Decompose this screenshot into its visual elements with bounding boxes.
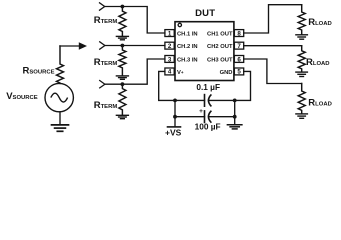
svg-text:7: 7 — [237, 43, 241, 50]
svg-text:4: 4 — [168, 69, 172, 76]
svg-text:1: 1 — [168, 30, 172, 37]
svg-text:5: 5 — [237, 69, 241, 76]
svg-text:100 µF: 100 µF — [195, 122, 221, 132]
svg-text:CH2 OUT: CH2 OUT — [207, 44, 233, 50]
svg-text:0.1 µF: 0.1 µF — [196, 82, 220, 92]
svg-text:+: + — [199, 108, 203, 115]
svg-text:8: 8 — [237, 30, 241, 37]
svg-text:2: 2 — [168, 43, 172, 50]
svg-text:CH1 OUT: CH1 OUT — [207, 31, 233, 37]
svg-text:DUT: DUT — [195, 8, 215, 19]
svg-text:6: 6 — [237, 56, 241, 63]
svg-text:CH.3 IN: CH.3 IN — [177, 57, 198, 63]
svg-text:+VS: +VS — [165, 128, 182, 138]
svg-text:CH.2 IN: CH.2 IN — [177, 44, 198, 50]
svg-text:CH3 OUT: CH3 OUT — [207, 57, 233, 63]
svg-text:GND: GND — [220, 70, 233, 76]
svg-text:3: 3 — [168, 56, 172, 63]
svg-text:CH.1 IN: CH.1 IN — [177, 31, 198, 37]
